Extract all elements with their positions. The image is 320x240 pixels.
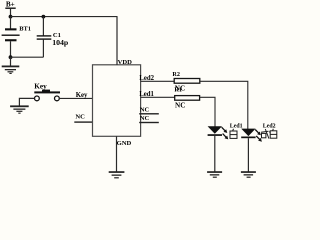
pin NC (left) (74, 114, 92, 123)
wire battery bottom lead (10, 41, 12, 57)
svg-text:NC: NC (75, 114, 85, 121)
wire ground stem (10, 57, 12, 66)
junction at battery bottom (9, 55, 13, 59)
svg-text:NC: NC (140, 106, 150, 113)
svg-text:BT1: BT1 (19, 26, 31, 33)
ground (battery) (2, 66, 20, 75)
LED D2 (241, 129, 262, 142)
svg-text:NC: NC (175, 101, 185, 109)
wire Led2 pin to R2 (141, 80, 175, 82)
resistor R2 (172, 71, 199, 83)
svg-text:NC: NC (140, 115, 150, 122)
svg-text:Key: Key (76, 92, 88, 99)
svg-text:VDD: VDD (118, 59, 133, 66)
pin NC (right 1) (139, 106, 159, 114)
svg-text:R1: R1 (174, 86, 182, 93)
wire capacitor bottom lead (42, 40, 44, 58)
wire GND stem (116, 136, 118, 171)
wire LED2 cathode to ground (247, 138, 249, 171)
LED D1 (208, 126, 229, 139)
wire top rail (11, 16, 118, 18)
svg-text:Led2: Led2 (263, 124, 276, 130)
ground (LED2) (241, 171, 256, 178)
battery BT1 (2, 26, 31, 42)
svg-text:GND: GND (117, 140, 132, 147)
ground (LED1) (207, 171, 222, 178)
wire switch left to ground (19, 98, 34, 105)
wire R2 to LED2 column (200, 81, 248, 129)
capacitor C1 (37, 32, 69, 47)
wire B+ terminal to top rail (10, 8, 12, 17)
wire battery top lead (10, 17, 12, 29)
annotation or-white (Led2) (261, 129, 277, 139)
annotation white (Led1) (230, 129, 237, 139)
resistor R1 (174, 86, 199, 100)
node B+ (5, 0, 15, 9)
ground (switch) (10, 105, 29, 113)
wire R1 to LED1 column (200, 97, 215, 126)
ground (IC) (109, 171, 125, 178)
switch S1 (34, 90, 60, 101)
wire bottom rail to capacitor (11, 56, 44, 58)
wire VDD (116, 17, 118, 65)
wire capacitor top lead (42, 17, 44, 36)
svg-text:Led1: Led1 (230, 124, 243, 130)
svg-text:B+: B+ (6, 0, 15, 8)
pin NC (right 2) (139, 115, 159, 123)
junction at capacitor top (42, 15, 46, 19)
wire Led1 pin to R1 (141, 96, 175, 98)
junction at battery top (9, 15, 13, 19)
svg-text:R2: R2 (172, 71, 180, 78)
op IC U1 (93, 65, 141, 137)
svg-text:Key: Key (34, 83, 47, 91)
wire switch to Key pin (59, 97, 92, 99)
svg-text:104p: 104p (52, 38, 69, 47)
wire LED1 cathode to ground (214, 136, 216, 172)
